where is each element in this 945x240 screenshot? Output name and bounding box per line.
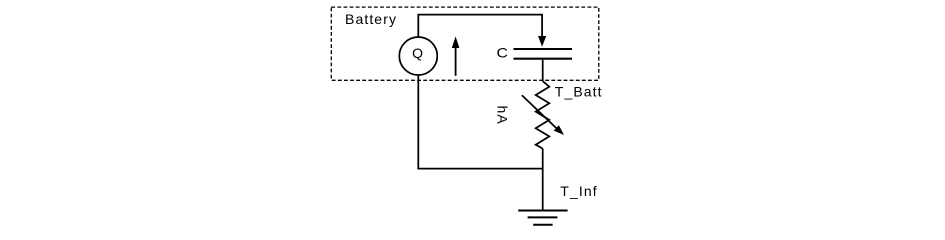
capacitor C top plate — [514, 48, 573, 50]
arrowhead into capacitor — [538, 36, 546, 47]
heat flow arrow (up) — [455, 46, 457, 76]
ground — [518, 210, 567, 212]
battery subsystem dashed box — [331, 7, 599, 80]
svg-text:Battery: Battery — [345, 11, 397, 27]
wire capacitor to resistor — [542, 60, 544, 81]
heat source Q — [399, 37, 437, 75]
capacitor C bottom plate — [514, 58, 573, 60]
svg-text:T_Inf: T_Inf — [560, 183, 597, 199]
svg-text:C: C — [497, 45, 509, 61]
wire Q bottom to bottom node — [418, 75, 542, 169]
svg-text:Q: Q — [412, 45, 423, 61]
wire resistor to ground — [542, 149, 544, 211]
wire Q top to capacitor top — [418, 15, 542, 37]
variable-resistor arrow through hA — [522, 95, 559, 130]
svg-text:T_Batt: T_Batt — [555, 83, 603, 99]
svg-text:hA: hA — [495, 105, 511, 124]
resistor hA (zigzag) — [536, 81, 550, 149]
